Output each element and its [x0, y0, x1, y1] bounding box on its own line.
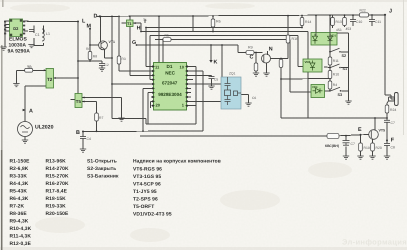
svg-text:Эл-информация: Эл-информация — [342, 238, 407, 247]
